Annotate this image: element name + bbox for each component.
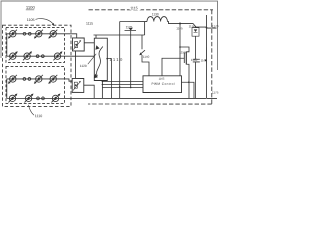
wire MOSFET drain to node 1145 branch — [180, 47, 189, 52]
battery cell C2 — [34, 75, 43, 84]
svg-text:1160: 1160 — [191, 58, 198, 62]
control wire to PWM box pin 3 — [102, 86, 143, 88]
PWM control box 1165 — [143, 76, 182, 93]
junction on output rail — [205, 59, 207, 61]
wire string row D / negative bottom rail — [7, 97, 206, 99]
junction — [102, 81, 104, 83]
wire positive output stub — [207, 27, 217, 29]
svg-text:1120: 1120 — [80, 64, 87, 68]
battery cell A1 — [8, 30, 17, 39]
svg-text:1160: 1160 — [201, 58, 207, 62]
monitor cell box (bottom) — [72, 78, 84, 92]
battery module dashed box (top) — [6, 27, 65, 62]
battery cell D3 — [51, 93, 60, 102]
battery cell B2 — [23, 51, 32, 60]
battery cell A3 — [48, 30, 57, 39]
svg-text:1170: 1170 — [212, 24, 219, 28]
svg-text:1175: 1175 — [212, 91, 219, 95]
ellipsis node row D — [42, 97, 45, 100]
wire string row C with left series link — [7, 79, 72, 98]
ellipsis node row C — [28, 78, 31, 81]
wire diode 1150 to capacitor — [195, 36, 197, 59]
wire inductor to output node — [167, 22, 206, 28]
wire capacitor to rail — [194, 62, 196, 98]
junction — [188, 81, 190, 83]
battery cell C3 — [48, 75, 57, 84]
ellipsis node row B — [41, 55, 44, 58]
wire stub into switch box top — [95, 35, 97, 38]
wire upper branch — [120, 21, 147, 23]
figure reference label 1100 — [26, 5, 36, 10]
svg-text:1115: 1115 — [86, 22, 93, 26]
transistor 1140 — [139, 35, 149, 59]
ellipsis node row A — [28, 32, 31, 35]
svg-text:1100: 1100 — [26, 5, 36, 10]
svg-text:1110: 1110 — [35, 114, 42, 118]
wire output rail vertical — [205, 15, 207, 98]
battery cell D2 — [24, 93, 33, 102]
wire PWM box output to rail — [181, 82, 194, 98]
converter module 1115 dashed outline — [88, 10, 213, 104]
wire MOSFET source to rail — [186, 64, 189, 98]
wire switch box top to converter input node — [94, 34, 145, 36]
battery cell A2 — [34, 30, 43, 39]
wire negative output stub — [206, 97, 217, 99]
wire monitor box bottom to rail — [84, 85, 94, 98]
junction — [130, 87, 132, 89]
svg-text:1145: 1145 — [176, 26, 183, 30]
ellipsis node row D — [37, 97, 40, 100]
ellipsis node row C — [23, 78, 26, 81]
label 1105 with leader arrow to battery pack — [27, 18, 54, 26]
switch 1125 — [125, 25, 137, 30]
wire switch box tap to rail — [107, 59, 111, 99]
junction — [206, 27, 208, 29]
monitor cell box (top) — [73, 38, 85, 51]
control wire to PWM box pin 2 — [102, 83, 143, 85]
wire string row A with left series link — [7, 34, 77, 56]
battery module dashed box (bottom) — [6, 66, 65, 103]
battery pack 1105 dashed outline — [2, 25, 71, 106]
node on switch box right edge — [106, 58, 108, 60]
wire switch box bottom down to rail — [101, 80, 103, 98]
wire monitor box top to monitor box bottom — [74, 51, 76, 78]
junction — [179, 46, 181, 48]
battery cell D1 — [8, 93, 17, 102]
node 1145 on output rail — [176, 23, 183, 31]
svg-text:1105: 1105 — [27, 18, 35, 22]
wire long vertical from input node — [119, 22, 121, 99]
battery cell B1 — [9, 51, 18, 60]
capacitor — [193, 59, 200, 62]
wire monitor box top to switch box — [84, 42, 94, 44]
wire long vertical from switch 1125 — [130, 31, 132, 88]
wire node 1145 down to PWM box — [179, 24, 181, 76]
battery cell B3 — [53, 51, 62, 60]
wire PWM box to MOSFET gate — [162, 58, 184, 76]
label 1120 with leader to switch box — [80, 54, 96, 68]
wire loop right leg — [144, 22, 146, 35]
svg-text:1155: 1155 — [179, 50, 186, 54]
diode 1150 — [189, 24, 199, 36]
wire string row B — [7, 55, 95, 57]
inductor 1130 — [147, 17, 167, 22]
control wire to PWM box pin 1 — [102, 80, 143, 82]
junction — [102, 84, 104, 86]
svg-text:1130: 1130 — [152, 12, 159, 16]
svg-text:1165: 1165 — [159, 77, 165, 81]
disconnect switch box 1120 — [94, 38, 108, 80]
wire transistor 1140 to PWM box — [142, 55, 149, 76]
ellipsis node row B — [36, 55, 39, 58]
battery cell C1 — [8, 75, 17, 84]
junction — [119, 86, 121, 88]
label 1115 on dashed border — [130, 5, 141, 10]
svg-text:PWM Control: PWM Control — [151, 82, 174, 86]
ellipsis node row A — [23, 32, 26, 35]
MOSFET 1155 — [184, 52, 186, 65]
svg-text:1115: 1115 — [130, 6, 137, 10]
svg-text:1140: 1140 — [143, 55, 150, 59]
label 1110 with curved leader (cells) — [28, 105, 42, 118]
